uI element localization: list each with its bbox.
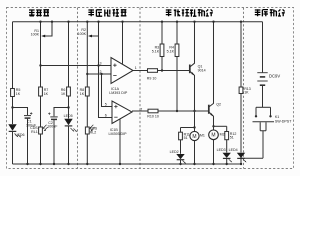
svg-text:SW-DPST: SW-DPST xyxy=(275,119,292,123)
op-amp IC1A (LM393) xyxy=(111,58,133,84)
node: R8 tap to comparator xyxy=(86,73,88,75)
potentiometer R1 wiper xyxy=(44,22,52,36)
resistor R8 xyxy=(85,87,89,96)
resistor R4 column xyxy=(176,22,178,44)
svg-text:51: 51 xyxy=(184,136,188,140)
wire: rail corner down to battery xyxy=(262,22,264,73)
section separator dashed line 1 (sensor / comparator) xyxy=(77,8,79,169)
resistor R11 xyxy=(180,128,182,133)
op-amp IC1B (LM393) xyxy=(112,101,132,124)
svg-text:LED3: LED3 xyxy=(217,148,226,152)
svg-text:DC9V: DC9V xyxy=(269,73,280,78)
svg-text:M1: M1 xyxy=(200,134,205,138)
svg-text:9014: 9014 xyxy=(198,69,206,73)
svg-text:6: 6 xyxy=(105,113,107,117)
svg-text:RL1: RL1 xyxy=(31,130,38,134)
wire: IC1B ground pin stub xyxy=(119,119,121,164)
svg-text:1K: 1K xyxy=(44,92,49,96)
LED D4 xyxy=(237,153,245,158)
capacitor C2 (electrolytic) xyxy=(50,116,57,118)
section separator dashed line 3 (motor drive / power) xyxy=(243,8,245,169)
wire: IC1A output xyxy=(133,70,148,72)
wire: IC1A power pin stub xyxy=(122,22,124,64)
transistor Q1 (9014 NPN) xyxy=(189,65,191,74)
svg-text:M: M xyxy=(211,133,215,139)
svg-text:1K: 1K xyxy=(16,92,21,96)
svg-text:RL2: RL2 xyxy=(90,130,97,134)
wire: IC1A inverting input xyxy=(87,73,111,75)
wire: branch to IC1B + input xyxy=(102,74,113,107)
potentiometer R2 wiper / reference column xyxy=(99,22,113,118)
svg-text:Q2: Q2 xyxy=(216,102,221,106)
svg-text:LED6: LED6 xyxy=(16,133,25,137)
resistor R9 (horizontal) xyxy=(148,69,158,73)
section title 电压比较器 (pseudo glyphs) xyxy=(88,9,126,16)
LED D3 xyxy=(223,153,231,158)
potentiometer R2 main column xyxy=(86,22,88,87)
section title 电机驱动部分 (pseudo glyphs) xyxy=(166,9,213,16)
ground rail junction dots xyxy=(26,163,28,165)
section title 传感器 (pseudo glyphs) xyxy=(29,10,49,17)
LED D5 xyxy=(64,119,72,126)
svg-text:M2: M2 xyxy=(220,132,225,136)
wire: bottom GND rail xyxy=(13,163,242,165)
switch K1 (SW-DPST) xyxy=(256,106,271,108)
section separator dashed line 2 (comparator / motor drive) xyxy=(139,8,141,169)
node: jog junction on col 12.5 xyxy=(11,106,13,108)
svg-text:1: 1 xyxy=(135,66,137,70)
resistor R13 column (power LED) xyxy=(240,22,242,87)
svg-text:LED2: LED2 xyxy=(170,150,179,154)
wire: left motor top node xyxy=(181,127,195,129)
node: Q1 emitter to output B wire xyxy=(193,110,195,112)
motor M2 xyxy=(213,126,215,130)
svg-text:100uF: 100uF xyxy=(47,125,58,129)
resistor R5 xyxy=(12,87,14,89)
resistor R10 (horizontal) xyxy=(148,109,158,113)
battery B1 DC9V xyxy=(257,72,267,74)
svg-text:M: M xyxy=(192,134,196,140)
transistor Q2 (9014 NPN) xyxy=(208,105,210,114)
capacitor C1 (electrolytic) xyxy=(24,115,31,117)
svg-text:LED5: LED5 xyxy=(64,114,73,118)
wire: jog to C1 xyxy=(13,108,28,116)
node: jog junction col 68.5 xyxy=(67,106,69,108)
wire: col 40.5 down xyxy=(40,66,42,88)
wire: IC1B output xyxy=(132,110,148,112)
svg-text:100K: 100K xyxy=(78,32,87,36)
svg-text:LM393 DIP: LM393 DIP xyxy=(109,91,128,95)
resistor R3 column xyxy=(161,22,163,44)
motor M1 xyxy=(194,128,196,132)
wire: switch return to ground xyxy=(241,157,263,159)
svg-text:R9 10: R9 10 xyxy=(147,76,157,80)
wire: right motor top node xyxy=(214,125,227,127)
svg-text:1K: 1K xyxy=(80,92,85,96)
svg-text:5.1K: 5.1K xyxy=(152,50,160,54)
svg-text:3: 3 xyxy=(100,61,102,65)
wire: IC1A non-inverting input xyxy=(41,65,112,67)
svg-text:2: 2 xyxy=(100,70,102,74)
outer dashed border frame xyxy=(7,8,294,169)
section title 电源部分 (pseudo glyphs) xyxy=(255,9,285,16)
wire: col 68.5 (sensor pair 2 LED chain) xyxy=(68,22,70,119)
svg-text:LM393 DIP: LM393 DIP xyxy=(109,132,128,136)
resistor R6 xyxy=(67,87,71,96)
svg-text:1K: 1K xyxy=(61,92,66,96)
svg-text:7: 7 xyxy=(140,107,142,111)
svg-text:100K: 100K xyxy=(31,33,40,37)
wire: left edge vertical (VCC to GND) xyxy=(12,22,14,87)
resistor R12 xyxy=(226,126,228,131)
potentiometer R1 main column xyxy=(40,22,42,66)
svg-text:R10 10: R10 10 xyxy=(147,114,159,118)
node: R3 to output A junction xyxy=(161,69,163,71)
photoresistor CDS2 xyxy=(85,127,89,134)
svg-text:1K: 1K xyxy=(244,90,249,94)
wire: top VCC rail xyxy=(13,21,263,23)
LED D2 xyxy=(176,154,184,159)
photoresistor CDS1 xyxy=(39,127,43,134)
node: sensor1 signal junction xyxy=(39,64,41,66)
svg-text:51: 51 xyxy=(230,136,234,140)
wire: col 12.5 down to LED6 xyxy=(12,108,14,125)
svg-text:LED4: LED4 xyxy=(229,148,238,152)
svg-text:5.1K: 5.1K xyxy=(167,50,175,54)
wire: jog to C2 xyxy=(54,108,69,117)
component value labels xyxy=(16,28,293,154)
LED D6 xyxy=(8,124,16,131)
resistor R7 xyxy=(39,87,43,96)
svg-text:5: 5 xyxy=(105,102,107,106)
